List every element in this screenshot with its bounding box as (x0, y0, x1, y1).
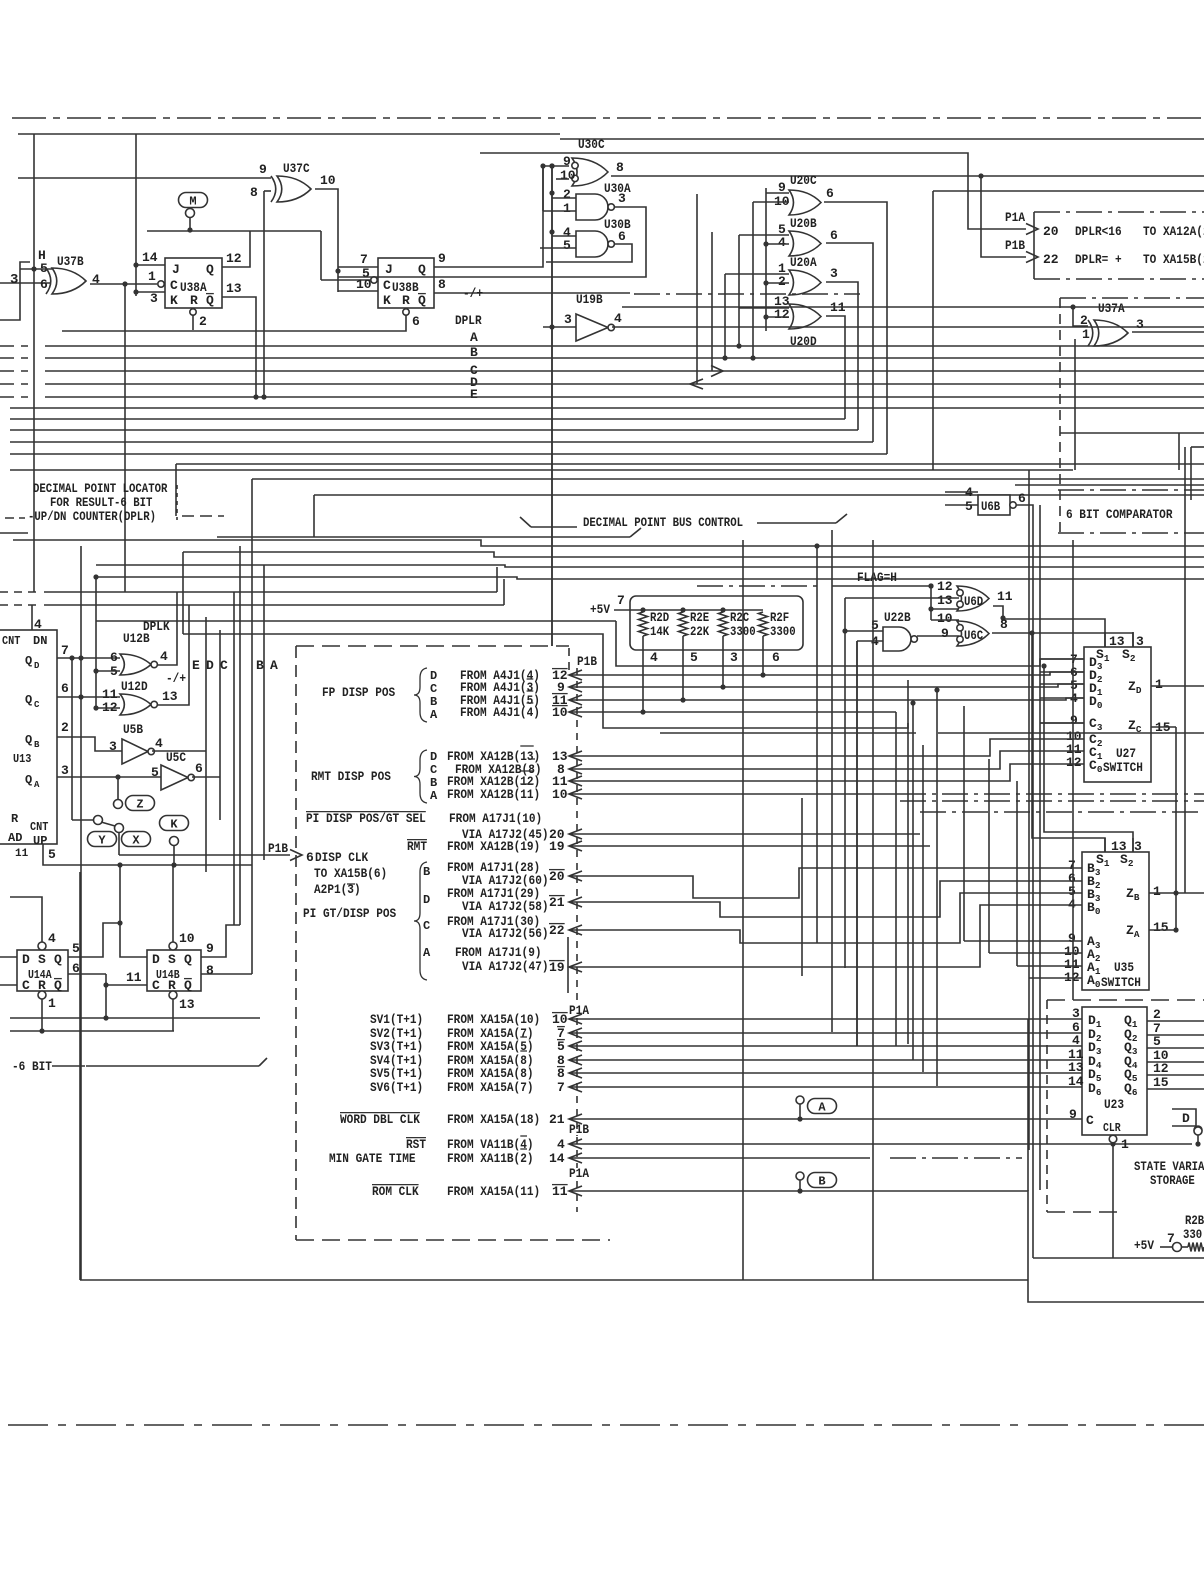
svg-text:3: 3 (1072, 1006, 1080, 1021)
svg-text:-/+: -/+ (166, 671, 186, 686)
svg-text:DECIMAL POINT BUS CONTROL: DECIMAL POINT BUS CONTROL (583, 516, 743, 530)
svg-text:SV5(T+1): SV5(T+1) (370, 1066, 423, 1081)
wire U38A J input (136, 264, 165, 266)
svg-text:Q: Q (54, 978, 62, 993)
resistor R2F 3300 (759, 612, 768, 636)
svg-text:R2E: R2E (690, 611, 709, 625)
wire long vertical x873 lower (872, 540, 874, 1280)
wire P1B DPLR=+ feed (978, 173, 983, 178)
svg-text:13: 13 (937, 593, 953, 608)
svg-text:A: A (423, 946, 431, 960)
svg-text:7: 7 (360, 252, 368, 267)
flip-flop U38B (378, 258, 434, 308)
wire ZC to ZA vertical (1175, 727, 1177, 930)
svg-text:13: 13 (179, 997, 195, 1012)
svg-text:E: E (192, 658, 200, 673)
svg-text:ROM CLK: ROM CLK (372, 1184, 419, 1199)
wire U38B Qbar pin 8 -/+ line (434, 292, 630, 294)
inner overbars on FROM labels (527, 678, 534, 680)
svg-text:Q: Q (54, 952, 62, 967)
wire U30B output 6 loop (546, 244, 632, 262)
svg-text:4: 4 (650, 650, 658, 665)
wire bus 10 (10, 453, 887, 455)
svg-text:Z: Z (136, 798, 143, 812)
svg-text:U35: U35 (1114, 960, 1134, 975)
wire MIN GATE TIME line (569, 1157, 870, 1159)
wire vertical A2 (263, 565, 265, 860)
svg-text:P1B: P1B (577, 654, 597, 669)
svg-text:15: 15 (1153, 920, 1169, 935)
svg-text:U22B: U22B (884, 610, 911, 625)
svg-text:DPLR<16: DPLR<16 (1075, 224, 1122, 239)
svg-text:19: 19 (549, 960, 565, 975)
wire U30C output 8 (611, 175, 1204, 177)
wire U14A input stubs (0, 956, 17, 958)
wire rom clk vertical (1027, 1019, 1029, 1191)
svg-text:6: 6 (618, 229, 626, 244)
wire bus 13 (252, 478, 1204, 480)
wire DPLK2 line to connector (182, 552, 184, 634)
svg-text:10: 10 (179, 931, 195, 946)
svg-text:C: C (152, 978, 160, 993)
svg-text:PI DISP POS/GT SEL: PI DISP POS/GT SEL (306, 811, 426, 826)
svg-text:9: 9 (941, 626, 949, 641)
gate U6B (978, 495, 1010, 515)
svg-text:R: R (190, 293, 198, 308)
svg-text:U12D: U12D (121, 679, 148, 694)
wire right segment to edge (1015, 484, 1204, 486)
svg-text:Q: Q (206, 262, 214, 277)
svg-text:C: C (423, 919, 430, 933)
svg-text:-UP/DN COUNTER(DPLR): -UP/DN COUNTER(DPLR) (28, 510, 156, 524)
wire U12D output 13 riser (158, 605, 189, 705)
svg-text:+5V: +5V (1134, 1238, 1154, 1253)
wire DPLK line to connector (96, 620, 616, 622)
svg-text:C: C (1086, 1113, 1094, 1128)
svg-text:1: 1 (1121, 1137, 1129, 1152)
flip-flop U38A (165, 258, 222, 308)
wire U23 Q6 output (1147, 1088, 1204, 1090)
svg-text:U20B: U20B (790, 216, 817, 231)
svg-text:Q: Q (25, 693, 32, 707)
wire mid bus 5 (44, 591, 497, 593)
svg-text:19: 19 (549, 839, 565, 854)
node H input bracket (0, 262, 30, 320)
svg-text:11: 11 (997, 589, 1013, 604)
wire RST line (569, 1143, 1192, 1145)
wire row A bend down (895, 712, 897, 1046)
svg-text:5: 5 (690, 650, 698, 665)
svg-text:4: 4 (34, 617, 42, 632)
svg-text:FROM XA12B(19): FROM XA12B(19) (447, 839, 540, 854)
svg-text:2: 2 (61, 720, 69, 735)
svg-text:K: K (170, 293, 178, 308)
wire bus 6 (10, 407, 1204, 409)
resistor R2C 3300 (719, 612, 728, 636)
svg-text:1: 1 (1155, 677, 1163, 692)
svg-text:D: D (34, 661, 40, 671)
svg-text:CNT: CNT (2, 634, 20, 648)
svg-text:FROM XA12B(11): FROM XA12B(11) (447, 787, 540, 802)
svg-text:VIA A17J2(58): VIA A17J2(58) (462, 899, 549, 914)
svg-text:Y: Y (98, 834, 106, 848)
svg-text:U19B: U19B (576, 292, 603, 307)
svg-text:6: 6 (40, 277, 48, 292)
svg-text:DPLR= +: DPLR= + (1075, 252, 1122, 267)
svg-text:-/+: -/+ (463, 286, 483, 301)
svg-text:10: 10 (320, 173, 336, 188)
wire long vertical x933 (932, 191, 934, 470)
wire input 3 line (0, 282, 51, 284)
wire branch to U35 S2 (1044, 666, 1133, 852)
svg-text:SV1(T+1): SV1(T+1) (370, 1012, 423, 1027)
wire vertical D (219, 630, 221, 820)
svg-text:B: B (818, 1175, 825, 1189)
wire mid bus 2 (183, 552, 1204, 557)
switch contact Y-X arm (94, 816, 103, 825)
wire CLR to bottom (1112, 1143, 1114, 1258)
wire mid bus 4 (96, 577, 1204, 579)
svg-text:R2C: R2C (730, 611, 750, 625)
wire U12B output 4 riser (158, 592, 177, 665)
svg-text:3: 3 (1136, 634, 1144, 649)
svg-text:Q: Q (184, 952, 192, 967)
wire vertical A (251, 479, 253, 974)
wire U19B output line right (622, 306, 1204, 308)
wire U38B C feed vertical (320, 231, 322, 280)
svg-text:9: 9 (1070, 713, 1078, 728)
svg-text:U20A: U20A (790, 255, 817, 270)
svg-text:TO XA15B(6): TO XA15B(6) (314, 866, 387, 881)
svg-text:WORD DBL CLK: WORD DBL CLK (340, 1112, 420, 1127)
svg-text:FP DISP POS: FP DISP POS (322, 685, 395, 700)
wire U6C output 8 to U27 S2 (992, 633, 1133, 647)
wire U6C branch down to U35 S1 (1032, 633, 1105, 852)
svg-text:D: D (22, 952, 30, 967)
gate U6D (957, 586, 989, 611)
svg-text:5: 5 (72, 941, 80, 956)
wire GT SEL rows (569, 833, 920, 835)
svg-text:DISP CLK: DISP CLK (315, 850, 368, 865)
switch contact Z (117, 777, 119, 800)
wire U30C input feed line (18, 177, 271, 179)
comparator dashed box left edge (1059, 298, 1061, 533)
svg-text:20: 20 (549, 869, 565, 884)
svg-text:C: C (430, 682, 437, 696)
svg-text:2: 2 (1153, 1007, 1161, 1022)
svg-text:P1A: P1A (569, 1166, 589, 1181)
svg-text:J: J (172, 262, 180, 277)
svg-text:D: D (206, 658, 214, 673)
svg-text:12: 12 (774, 307, 790, 322)
register U23 dashed box (1046, 1000, 1048, 1212)
svg-text:DECIMAL POINT LOCATOR: DECIMAL POINT LOCATOR (33, 482, 168, 496)
wire right verticals (1184, 447, 1186, 893)
svg-text:S: S (168, 952, 176, 967)
wire mid bus 6 (44, 604, 504, 606)
svg-text:3: 3 (618, 191, 626, 206)
wire into U37A (1070, 304, 1075, 309)
svg-text:D: D (423, 893, 430, 907)
svg-text:Q: Q (206, 293, 214, 308)
svg-text:5: 5 (1153, 1034, 1161, 1049)
svg-text:5: 5 (362, 266, 370, 281)
svg-text:C: C (430, 763, 437, 777)
wire mesh verticals mid (816, 544, 818, 943)
svg-text:STATE VARIA: STATE VARIA (1134, 1160, 1204, 1174)
node B oval (796, 1172, 804, 1180)
svg-text:U37B: U37B (57, 254, 84, 269)
svg-text:K: K (383, 293, 391, 308)
svg-text:3: 3 (830, 266, 838, 281)
svg-text:5: 5 (563, 238, 571, 253)
wire top dash-dot border line (12, 117, 1204, 119)
wire U20B output 6 (826, 243, 873, 442)
wire U30 feed vertical x552 (551, 166, 553, 646)
svg-text:21: 21 (549, 895, 565, 910)
svg-text:RST: RST (406, 1137, 426, 1152)
svg-text:4: 4 (614, 311, 622, 326)
svg-text:A: A (470, 330, 478, 345)
resistor network box (630, 596, 803, 650)
svg-text:8: 8 (250, 185, 258, 200)
wire U6D output 11 to U27 S1 (993, 606, 1105, 647)
svg-text:10: 10 (552, 787, 568, 802)
wire vertical B (239, 546, 241, 925)
svg-text:FLAG=H: FLAG=H (857, 570, 897, 585)
svg-text:RMT DISP POS: RMT DISP POS (311, 769, 391, 784)
connector box DPLR outputs (1034, 211, 1204, 213)
wire PI GT rows to U35 (569, 868, 1040, 898)
signal box dashed border (296, 645, 569, 647)
wire leader line (217, 536, 630, 538)
wire ROM CLK line (569, 1190, 800, 1192)
wire vertical C (233, 592, 235, 925)
wire U14B reset stem (172, 999, 174, 1031)
svg-text:DPLR: DPLR (455, 313, 482, 328)
svg-text:12: 12 (937, 579, 953, 594)
svg-text:M: M (189, 195, 196, 209)
svg-text:10: 10 (560, 168, 576, 183)
svg-text:3300: 3300 (730, 625, 756, 639)
svg-text:9: 9 (1069, 1107, 1077, 1122)
svg-text:1: 1 (1153, 884, 1161, 899)
svg-text:10: 10 (552, 705, 568, 720)
svg-text:FROM XA15A(7): FROM XA15A(7) (447, 1080, 534, 1095)
wire top horizontal bus line (18, 133, 560, 135)
svg-text:C: C (383, 278, 391, 293)
switch contact K (160, 816, 189, 831)
svg-text:4: 4 (557, 1137, 565, 1152)
svg-text:B: B (430, 776, 437, 790)
svg-text:4: 4 (48, 931, 56, 946)
svg-text:VIA A17J2(56): VIA A17J2(56) (462, 926, 549, 941)
wire label backslash (520, 517, 531, 527)
svg-text:Q: Q (25, 654, 32, 668)
svg-text:STORAGE: STORAGE (1150, 1174, 1195, 1188)
wire U23 Q4 output (1147, 1061, 1204, 1063)
svg-text:11: 11 (126, 970, 142, 985)
svg-text:TO XA12A(2: TO XA12A(2 (1143, 224, 1204, 239)
svg-text:U6C: U6C (964, 629, 984, 643)
svg-text:E: E (470, 387, 478, 402)
svg-text:U23: U23 (1104, 1097, 1124, 1112)
svg-text:SWITCH: SWITCH (1103, 760, 1143, 775)
wire U23 Q2 output (1147, 1034, 1204, 1036)
wire riser x120 (119, 865, 121, 923)
svg-text:U12B: U12B (123, 631, 150, 646)
svg-text:B: B (34, 740, 40, 750)
wire DISP CLK line (119, 854, 290, 856)
svg-text:FROM XA15A(18): FROM XA15A(18) (447, 1112, 540, 1127)
svg-text:C: C (34, 700, 40, 710)
wire U14A pin4 up (10, 897, 42, 942)
counter U13 (0, 630, 57, 844)
svg-text:12: 12 (226, 251, 242, 266)
svg-text:FROM XA15A(8): FROM XA15A(8) (447, 1066, 534, 1081)
wire vertical E (205, 617, 207, 872)
svg-text:10: 10 (552, 1012, 568, 1027)
wire U38A Qbar pin 13 down to bus (222, 297, 256, 397)
svg-text:5: 5 (557, 1039, 565, 1054)
wire U30A output 3 loop (338, 207, 646, 277)
svg-text:14: 14 (1068, 1074, 1084, 1089)
svg-text:+5V: +5V (590, 602, 610, 617)
svg-text:15: 15 (1153, 1075, 1169, 1090)
wire U23 Q5 output (1147, 1074, 1204, 1076)
svg-text:A: A (818, 1101, 826, 1115)
svg-text:P1B: P1B (268, 841, 288, 856)
svg-text:U5B: U5B (123, 722, 143, 737)
svg-text:8: 8 (557, 1066, 565, 1081)
svg-text:FROM VA11B(4): FROM VA11B(4) (447, 1137, 534, 1152)
svg-text:A: A (430, 789, 438, 803)
svg-text:6: 6 (110, 650, 118, 665)
svg-text:MIN GATE TIME: MIN GATE TIME (329, 1151, 416, 1166)
svg-text:Q: Q (184, 978, 192, 993)
wire U37A output 3 (1132, 331, 1204, 333)
svg-text:3300: 3300 (770, 625, 796, 639)
wire U20A output 3 (826, 282, 858, 430)
svg-text:8: 8 (616, 160, 624, 175)
svg-text:4: 4 (1072, 1033, 1080, 1048)
svg-text:2: 2 (199, 314, 207, 329)
svg-text:1: 1 (563, 201, 571, 216)
svg-text:AD: AD (8, 831, 22, 845)
wire bus 12 (10, 469, 1073, 471)
wire left verticals (80, 546, 82, 1280)
svg-text:14: 14 (549, 1151, 565, 1166)
wire bus 8 (10, 429, 858, 431)
svg-text:FROM A17J1(10): FROM A17J1(10) (449, 811, 542, 826)
flip-flop U14B (147, 950, 201, 991)
svg-text:D: D (1182, 1111, 1190, 1126)
svg-text:U13: U13 (13, 752, 31, 766)
svg-text:FROM XA15A(11): FROM XA15A(11) (447, 1184, 540, 1199)
node D oval (1172, 1109, 1196, 1126)
svg-text:13: 13 (1068, 1060, 1084, 1075)
wire right dash rows (900, 800, 1204, 802)
svg-text:UP: UP (33, 834, 47, 848)
wire U14B pin10 riser (172, 865, 174, 942)
U38A reset bubble pin 2 (190, 309, 196, 315)
svg-text:U20D: U20D (790, 334, 817, 349)
svg-text:22: 22 (549, 923, 565, 938)
svg-text:D: D (430, 750, 437, 764)
wire bus 11 (176, 463, 1204, 465)
wire bus 14 corner (313, 495, 315, 537)
svg-text:21: 21 (549, 1112, 565, 1127)
svg-text:SV6(T+1): SV6(T+1) (370, 1080, 423, 1095)
wire vertical from top line x34 (33, 134, 35, 592)
svg-text:CLR: CLR (1103, 1122, 1121, 1135)
svg-text:6: 6 (826, 186, 834, 201)
svg-text:U5C: U5C (166, 750, 186, 765)
svg-text:13: 13 (226, 281, 242, 296)
comparator dashed box top (1060, 297, 1204, 299)
wire Qd branch to Y switch (71, 658, 73, 820)
svg-text:1: 1 (148, 269, 156, 284)
svg-text:TO XA15B(2: TO XA15B(2 (1143, 252, 1204, 267)
svg-text:Q: Q (25, 733, 32, 747)
wire vertical x697 with arrow (696, 194, 698, 384)
svg-text:14: 14 (142, 250, 158, 265)
svg-text:11: 11 (552, 1184, 568, 1199)
wire RMT rows to U27 C (569, 739, 1040, 756)
wire FP rows to U27 (569, 672, 1084, 675)
wire vertical from top line x136 (135, 134, 137, 296)
resistor R2D 14K (639, 612, 648, 636)
svg-text:C: C (22, 978, 30, 993)
flip-flop U14A (17, 950, 68, 991)
svg-text:U6B: U6B (981, 500, 1001, 514)
svg-text:U30C: U30C (578, 137, 605, 152)
wire bus 11 left corner (175, 464, 177, 516)
svg-text:8: 8 (1000, 617, 1008, 632)
wire U22B output (917, 635, 959, 637)
svg-text:R2F: R2F (770, 611, 789, 625)
wire U38A Q output pin 12 to U38B clock (222, 231, 250, 267)
register U23 (1082, 1007, 1147, 1135)
svg-text:J: J (385, 262, 393, 277)
wire U38A K input (136, 291, 165, 293)
svg-text:PI GT/DISP POS: PI GT/DISP POS (303, 906, 396, 921)
svg-text:A: A (430, 708, 438, 722)
svg-text:8: 8 (438, 277, 446, 292)
node M oval (179, 193, 208, 208)
svg-text:4: 4 (778, 235, 786, 250)
svg-text:6: 6 (412, 314, 420, 329)
wire bus 7 (10, 418, 845, 420)
wire U37B output to U38A clock (90, 283, 157, 285)
svg-text:C: C (220, 658, 228, 673)
wire bus 14 (314, 494, 1204, 496)
svg-text:13: 13 (162, 689, 178, 704)
svg-text:3: 3 (109, 739, 117, 754)
svg-text:Q: Q (25, 773, 32, 787)
svg-text:3: 3 (730, 650, 738, 665)
wire bottom right verticals (1039, 505, 1041, 1190)
svg-text:2: 2 (563, 187, 571, 202)
svg-text:R: R (402, 293, 410, 308)
svg-text:6 BIT COMPARATOR: 6 BIT COMPARATOR (1066, 507, 1173, 522)
wire SV rows to U23 (569, 1018, 1082, 1020)
wire connector strip segment (567, 937, 569, 993)
switch U27 (1084, 647, 1151, 782)
wire U14 bottom line 1031 (10, 1030, 174, 1032)
wire U14 bottom line 1018 (10, 1017, 260, 1019)
svg-text:5: 5 (965, 499, 973, 514)
